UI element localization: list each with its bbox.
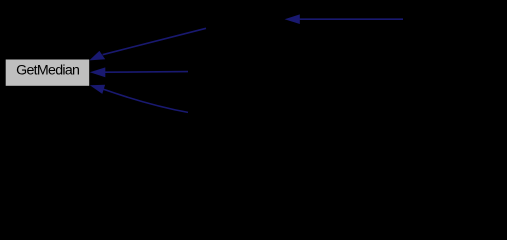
edge caller1 -> GetMedian (wire) [103, 28, 206, 54]
edge caller2 -> GetMedian (wire) [104, 71, 188, 74]
edge caller1 -> GetMedian (arrowhead) [89, 51, 105, 61]
svg-text:GetMedian: GetMedian [16, 63, 79, 79]
edge caller4 -> caller1 (wire) [299, 18, 403, 20]
edge caller4 -> caller1 (arrowhead) [285, 14, 300, 24]
edge caller2 -> GetMedian (arrowhead) [90, 67, 106, 77]
node GetMedian (box) [6, 60, 90, 86]
edge caller3 -> GetMedian (arrowhead) [90, 85, 105, 94]
edge caller3 -> GetMedian (wire) [104, 89, 189, 112]
